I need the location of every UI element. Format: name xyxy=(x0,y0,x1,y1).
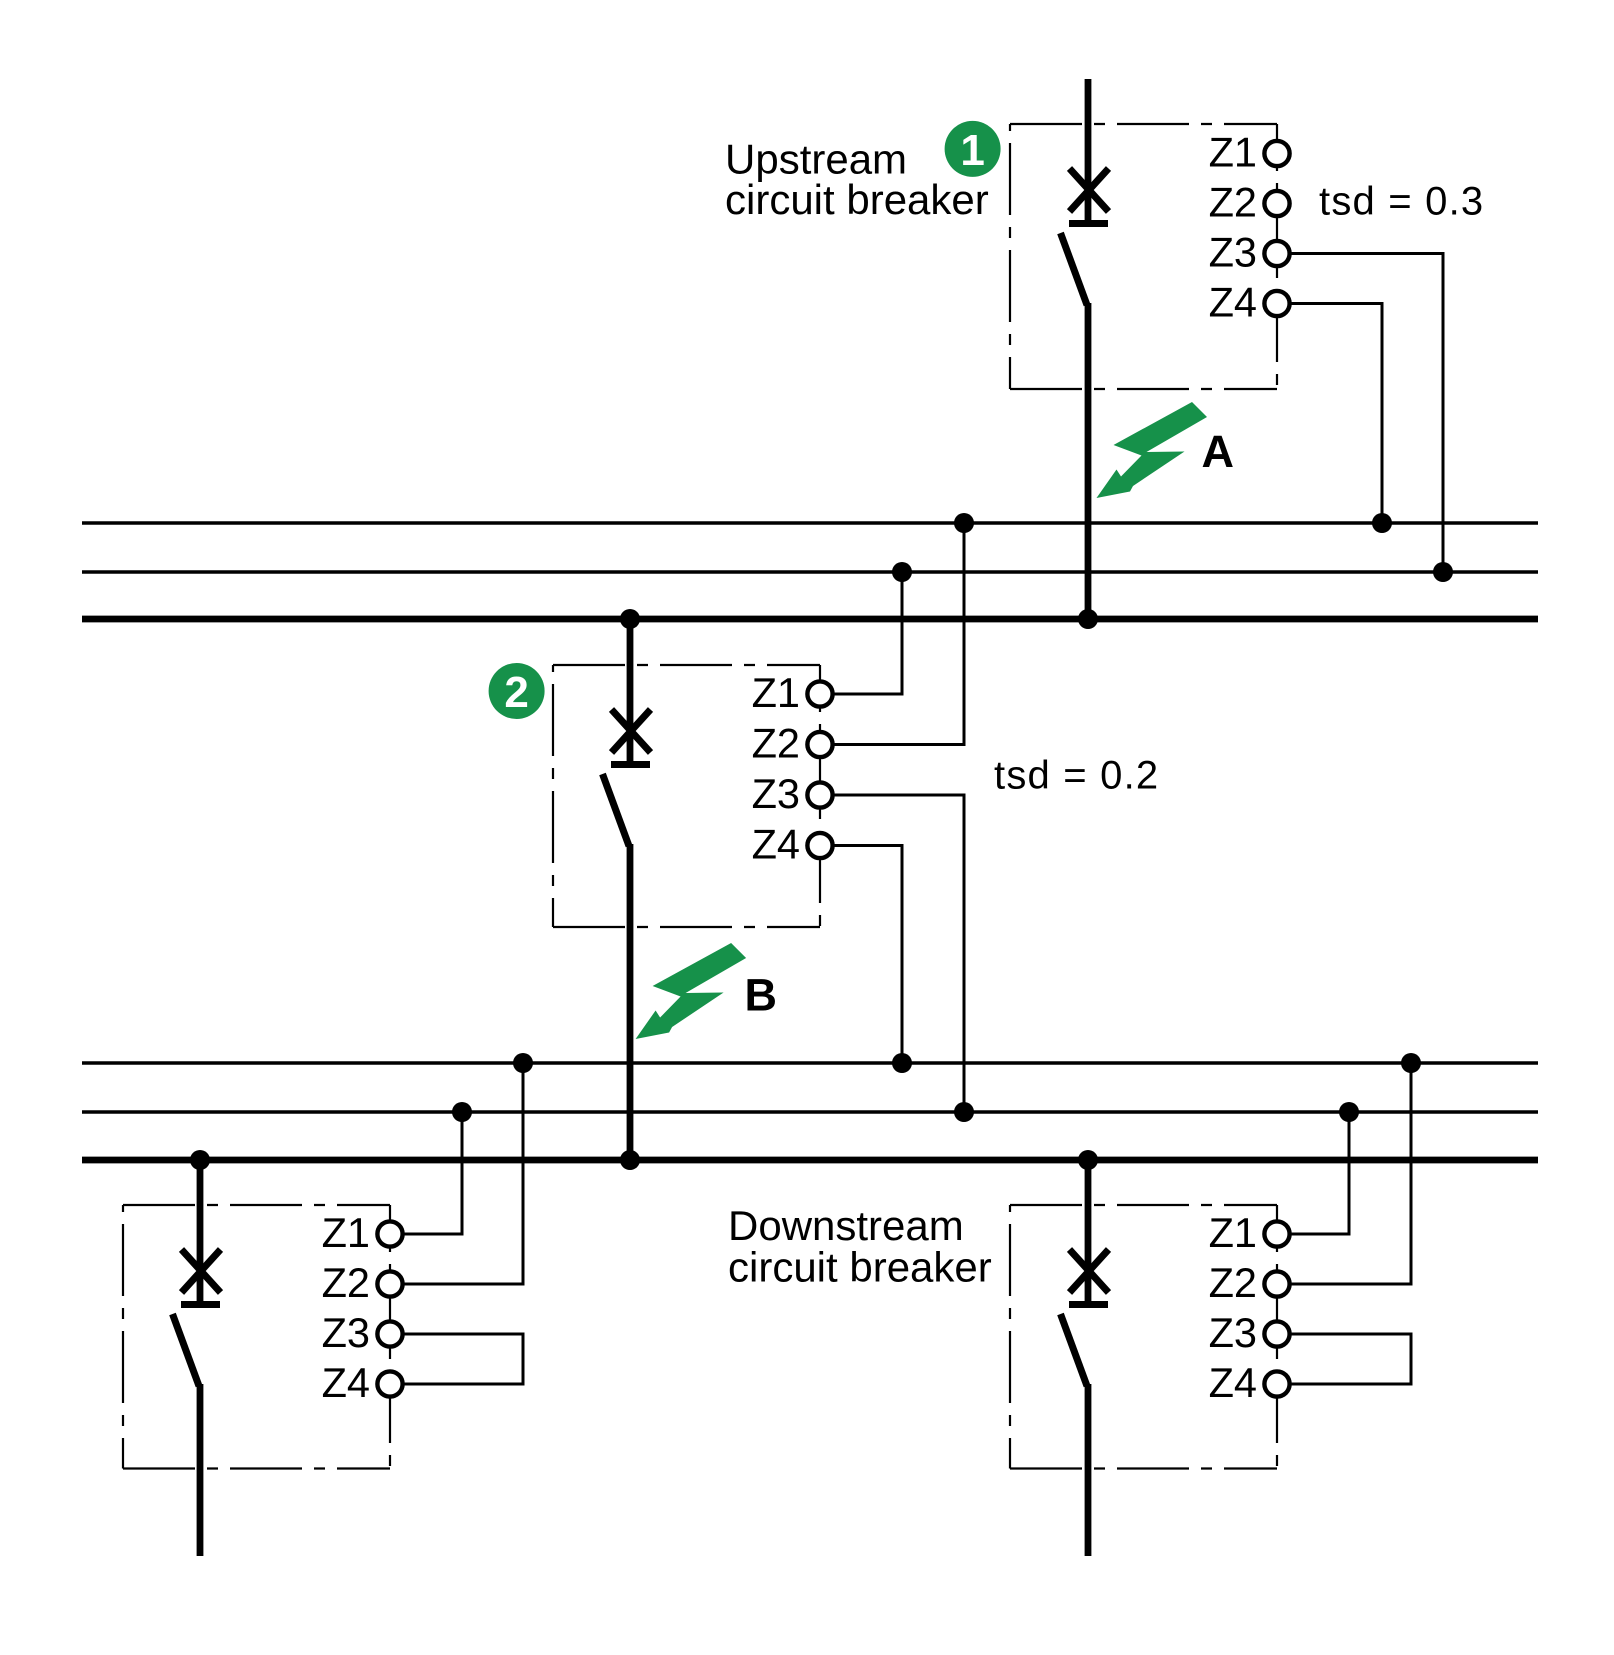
terminal circle Z4 (breaker 1) xyxy=(1264,291,1289,316)
wire feeder upper (breaker 1) xyxy=(1085,79,1092,221)
terminal circle Z3 (breaker 3) xyxy=(377,1321,402,1346)
terminal circle Z1 (breaker 1) xyxy=(1264,141,1289,166)
breaker 3 enclosure bottom edge (dash-dot) xyxy=(123,1467,390,1469)
wire Z2 breaker2 up to upper line1 xyxy=(834,523,964,745)
wire Z3 breaker1 to upper busbar line2 xyxy=(1291,254,1443,573)
svg-text:Z4: Z4 xyxy=(1209,279,1257,326)
switch blade (breaker 4) xyxy=(1061,1314,1088,1386)
svg-text:A: A xyxy=(1202,426,1235,477)
breaker 1 enclosure top edge (dash-dot) xyxy=(1010,123,1277,125)
trip cross X (breaker 2) xyxy=(612,710,651,753)
junction dot Z1-4 on lower line2 xyxy=(1339,1102,1359,1122)
junction dot Z2-4 on lower line1 xyxy=(1401,1053,1421,1073)
upper busbar line 2 (wire) xyxy=(82,570,1538,573)
junction dot feeder1 on upper thick busbar xyxy=(1078,609,1098,629)
svg-text:Z3: Z3 xyxy=(1209,229,1257,276)
junction dot Z2-2 on upper line1 xyxy=(954,513,974,533)
upper main busbar (thick wire) xyxy=(82,616,1538,623)
svg-text:Z4: Z4 xyxy=(322,1359,370,1406)
trip cross X (breaker 1) xyxy=(1070,169,1109,212)
junction dot Z4-2 on lower line1 xyxy=(892,1053,912,1073)
terminal circle Z2 (breaker 3) xyxy=(377,1271,402,1296)
svg-text:Z1: Z1 xyxy=(322,1209,370,1256)
wire Z1 breaker2 up to upper line2 xyxy=(834,572,902,694)
terminal circle Z4 (breaker 2) xyxy=(807,833,832,858)
junction dot feeder4 on lower thick busbar xyxy=(1078,1150,1098,1170)
wire feeder upper (breaker 3) xyxy=(197,1160,204,1302)
terminal circle Z3 (breaker 1) xyxy=(1264,241,1289,266)
terminal circle Z4 (breaker 3) xyxy=(377,1371,402,1396)
terminal circle Z1 (breaker 3) xyxy=(377,1221,402,1246)
wire feeder upper (breaker 4) xyxy=(1085,1160,1092,1302)
switch blade (breaker 2) xyxy=(603,774,630,846)
breaker 2 enclosure top edge (dash-dot) xyxy=(553,664,820,666)
wire feeder lower (breaker 4) xyxy=(1085,1384,1092,1556)
junction dot Z3-2 on lower line2 xyxy=(954,1102,974,1122)
wire Z1 breaker4 up to lower line2 xyxy=(1291,1112,1349,1234)
switch blade (breaker 3) xyxy=(173,1314,200,1386)
wire feeder lower (breaker 2) xyxy=(627,844,634,1160)
svg-text:Z1: Z1 xyxy=(1209,1209,1257,1256)
fault bolt B (green lightning arrow) xyxy=(636,943,747,1039)
svg-text:tsd = 0.3: tsd = 0.3 xyxy=(1319,180,1484,224)
fault bolt A (green lightning arrow) xyxy=(1097,402,1208,498)
terminal circle Z2 (breaker 1) xyxy=(1264,191,1289,216)
wire Z2 breaker4 up to lower line1 xyxy=(1291,1063,1411,1284)
junction dot feeder3 on lower thick busbar xyxy=(190,1150,210,1170)
junction dot Z3-1 on line2 xyxy=(1433,562,1453,582)
lower busbar line 1 (wire) xyxy=(82,1061,1538,1064)
badge 1 (green circle) xyxy=(945,121,1001,177)
trip cross X (breaker 3) xyxy=(182,1250,221,1293)
lower busbar line 2 (wire) xyxy=(82,1110,1538,1113)
junction dot feeder2 on upper thick busbar xyxy=(620,609,640,629)
breaker 1 enclosure left edge (dash-dot) xyxy=(1009,124,1011,389)
svg-text:Z4: Z4 xyxy=(752,821,800,868)
wire Z3 breaker2 down to lower line2 xyxy=(834,795,964,1112)
svg-text:B: B xyxy=(745,970,778,1021)
wire Z1 breaker3 up to lower line2 xyxy=(404,1112,462,1234)
svg-text:Z2: Z2 xyxy=(752,720,800,767)
breaker 3 enclosure top edge (dash-dot) xyxy=(123,1204,390,1206)
terminal circle Z2 (breaker 4) xyxy=(1264,1271,1289,1296)
fixed contact bar (breaker 4) xyxy=(1069,1301,1108,1308)
wire Z3-Z4 interlock loop (breaker 3) xyxy=(404,1334,523,1384)
svg-text:Z3: Z3 xyxy=(752,770,800,817)
svg-text:Downstream: Downstream xyxy=(728,1202,964,1249)
svg-text:Z1: Z1 xyxy=(752,669,800,716)
terminal circle Z3 (breaker 2) xyxy=(807,782,832,807)
terminal circle Z1 (breaker 4) xyxy=(1264,1221,1289,1246)
svg-text:1: 1 xyxy=(960,126,984,175)
svg-text:Z2: Z2 xyxy=(322,1259,370,1306)
terminal circle Z1 (breaker 2) xyxy=(807,681,832,706)
breaker 2 enclosure left edge (dash-dot) xyxy=(552,665,554,927)
svg-text:Z2: Z2 xyxy=(1209,179,1257,226)
upper busbar line 1 (wire) xyxy=(82,521,1538,524)
breaker 2 enclosure bottom edge (dash-dot) xyxy=(553,926,820,928)
svg-text:tsd = 0.2: tsd = 0.2 xyxy=(994,754,1159,798)
wire Z4 breaker2 down to lower line1 xyxy=(834,846,902,1064)
breaker 4 enclosure top edge (dash-dot) xyxy=(1010,1204,1277,1206)
switch blade (breaker 1) xyxy=(1061,233,1088,305)
junction dot Z2-3 on lower line1 xyxy=(513,1053,533,1073)
breaker 4 enclosure bottom edge (dash-dot) xyxy=(1010,1467,1277,1469)
junction dot Z1-3 on lower line2 xyxy=(452,1102,472,1122)
breaker 4 enclosure left edge (dash-dot) xyxy=(1009,1205,1011,1469)
svg-text:Z4: Z4 xyxy=(1209,1359,1257,1406)
wire Z4 breaker1 to upper busbar line1 xyxy=(1291,304,1382,524)
svg-text:circuit breaker: circuit breaker xyxy=(728,1244,992,1291)
svg-text:Z3: Z3 xyxy=(1209,1309,1257,1356)
breaker 3 enclosure left edge (dash-dot) xyxy=(122,1205,124,1469)
wire feeder lower (breaker 1) xyxy=(1085,303,1092,623)
breaker 1 enclosure right edge (dash-dot) xyxy=(1276,124,1278,389)
terminal circle Z3 (breaker 4) xyxy=(1264,1321,1289,1346)
fixed contact bar (breaker 2) xyxy=(611,761,650,768)
breaker 3 enclosure right edge (dash-dot) xyxy=(389,1205,391,1469)
junction dot Z1-2 on upper line2 xyxy=(892,562,912,582)
fixed contact bar (breaker 1) xyxy=(1069,220,1108,227)
breaker 4 enclosure right edge (dash-dot) xyxy=(1276,1205,1278,1469)
lower main busbar (thick wire) xyxy=(82,1157,1538,1164)
junction dot Z4-1 on line1 xyxy=(1372,513,1392,533)
trip cross X (breaker 4) xyxy=(1070,1250,1109,1293)
wire Z3-Z4 interlock loop (breaker 4) xyxy=(1291,1334,1411,1384)
svg-text:Z1: Z1 xyxy=(1209,129,1257,176)
wire feeder lower (breaker 3) xyxy=(197,1384,204,1556)
wire Z2 breaker3 up to lower line1 xyxy=(404,1063,523,1284)
breaker 1 enclosure bottom edge (dash-dot) xyxy=(1010,388,1277,390)
fixed contact bar (breaker 3) xyxy=(181,1301,220,1308)
junction dot feeder2 on lower thick busbar xyxy=(620,1150,640,1170)
badge 2 (green circle) xyxy=(489,663,545,719)
svg-text:Z2: Z2 xyxy=(1209,1259,1257,1306)
terminal circle Z4 (breaker 4) xyxy=(1264,1371,1289,1396)
terminal circle Z2 (breaker 2) xyxy=(807,732,832,757)
svg-text:2: 2 xyxy=(504,668,528,717)
breaker 2 enclosure right edge (dash-dot) xyxy=(819,665,821,927)
svg-text:circuit breaker: circuit breaker xyxy=(725,176,989,223)
wire feeder upper (breaker 2) xyxy=(627,619,634,762)
svg-text:Z3: Z3 xyxy=(322,1309,370,1356)
